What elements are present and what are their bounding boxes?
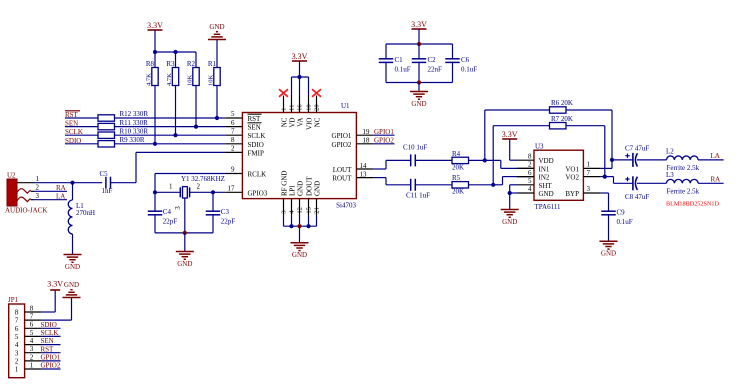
U1 top pin 16 VA <box>296 96 304 127</box>
node gnd rail b <box>297 224 301 228</box>
wire node to C7 <box>612 159 633 161</box>
node crystal pin2/C3 <box>211 190 215 194</box>
wire C11 to R5 <box>415 184 452 186</box>
svg-text:IN2: IN2 <box>539 174 550 182</box>
node rail/R8 <box>153 50 157 54</box>
net label LA <box>711 152 720 160</box>
svg-text:RCLK: RCLK <box>248 171 267 179</box>
svg-text:1: 1 <box>36 175 40 183</box>
resistor R1 10K <box>208 40 221 87</box>
resistor R4 20K <box>452 150 469 172</box>
node gnd rail c <box>306 224 310 228</box>
svg-text:17: 17 <box>228 185 236 193</box>
U1 pin 5 RST <box>231 110 262 123</box>
svg-text:C10 1uF: C10 1uF <box>403 143 427 151</box>
capacitor C10 1uF <box>403 143 427 166</box>
svg-text:2: 2 <box>15 358 19 366</box>
node VO1/R6 <box>610 158 614 162</box>
svg-text:8: 8 <box>30 304 34 312</box>
capacitor C2 22nF <box>412 44 442 83</box>
svg-text:10K: 10K <box>208 75 215 87</box>
ground (JP1) <box>63 281 81 298</box>
svg-text:TPA6111: TPA6111 <box>535 203 562 211</box>
JP1 pin 1 <box>15 361 42 373</box>
svg-text:R10 330R: R10 330R <box>120 127 149 135</box>
wire JP1 pin7 to GND <box>42 298 72 321</box>
resistor R8 4.7K <box>146 52 159 86</box>
wire C9 to ground <box>608 215 610 242</box>
no-connect X on pin 1 <box>279 89 288 97</box>
svg-text:1: 1 <box>15 366 19 374</box>
svg-text:GND: GND <box>601 250 616 258</box>
svg-text:BYP: BYP <box>565 190 579 198</box>
power 3.3V (U3 supply) <box>502 130 518 160</box>
svg-text:C1: C1 <box>395 56 404 64</box>
wire L3 to RA <box>698 182 724 184</box>
wire GPIO1 stub <box>373 128 394 136</box>
resistor R5 20K <box>452 174 469 196</box>
svg-text:5: 5 <box>30 329 34 337</box>
wire jack pin3 LA <box>34 193 67 201</box>
capacitor C11 1uF <box>406 179 430 200</box>
net label RST <box>65 111 80 119</box>
svg-text:GPIO1: GPIO1 <box>41 354 61 362</box>
ground (U3) <box>501 210 519 226</box>
capacitor C9 0.1uF <box>601 208 633 226</box>
svg-text:GND: GND <box>209 23 224 31</box>
U3 pin 2 IN1 <box>517 161 550 174</box>
svg-text:6: 6 <box>528 169 532 177</box>
capacitor C5 1nF <box>100 170 113 195</box>
node crystal gnd <box>183 231 187 235</box>
svg-text:C8 47uF: C8 47uF <box>625 193 649 201</box>
svg-text:VA: VA <box>296 118 304 127</box>
svg-text:2: 2 <box>528 161 532 169</box>
svg-text:4.7K: 4.7K <box>166 73 173 86</box>
wire JP1 GPIO2 <box>41 362 61 370</box>
svg-text:GND: GND <box>411 100 426 108</box>
svg-text:GND: GND <box>292 251 307 259</box>
svg-text:0.1uF: 0.1uF <box>461 65 477 73</box>
svg-text:SHT: SHT <box>539 182 553 190</box>
capacitor C4 22pF <box>148 192 178 233</box>
node R2/SEN junction <box>194 125 198 129</box>
svg-text:SDIO: SDIO <box>41 321 57 329</box>
connector JP1 body <box>8 296 25 378</box>
svg-text:VO2: VO2 <box>565 174 579 182</box>
wire node to IN2 <box>493 177 534 185</box>
svg-text:2: 2 <box>197 183 201 191</box>
resistor R6 20K <box>550 99 573 113</box>
ground (crystal) <box>176 252 194 268</box>
power 3.3V (pull-up rail) <box>147 21 163 52</box>
svg-text:10K: 10K <box>187 75 194 87</box>
svg-text:FMIP: FMIP <box>248 149 264 157</box>
U1 pin 17 GPIO3 <box>228 185 268 198</box>
svg-text:2: 2 <box>36 184 40 192</box>
svg-text:3.3V: 3.3V <box>502 130 518 139</box>
svg-text:SDIO: SDIO <box>248 141 264 149</box>
svg-text:R9 330R: R9 330R <box>120 136 145 144</box>
svg-text:VDD: VDD <box>539 157 554 165</box>
svg-text:4: 4 <box>528 185 532 193</box>
svg-text:R6 20K: R6 20K <box>551 99 573 107</box>
svg-text:RST: RST <box>248 115 262 123</box>
wire step to C8 <box>614 177 633 184</box>
svg-text:GND: GND <box>65 263 80 271</box>
wire JP1 SEN <box>41 337 61 345</box>
svg-text:GND: GND <box>539 190 554 198</box>
node R1/RST junction <box>215 116 219 120</box>
svg-text:C5: C5 <box>100 170 109 178</box>
node caps/gnd <box>417 80 421 84</box>
U3 pin 1 VO1 <box>565 161 600 174</box>
svg-text:22pF: 22pF <box>163 217 178 225</box>
U1 pin 18 GPIO2 <box>332 137 374 149</box>
svg-text:6: 6 <box>231 119 235 127</box>
svg-text:16: 16 <box>297 104 304 111</box>
svg-text:SEN: SEN <box>248 124 261 132</box>
svg-text:1nF: 1nF <box>102 187 113 195</box>
wire GPIO2 stub <box>373 137 394 145</box>
ground (decoupling) <box>410 92 428 108</box>
wire C5 to corner <box>111 182 136 184</box>
connector U2 AUDIO-JACK <box>5 171 47 214</box>
svg-text:12: 12 <box>296 207 303 214</box>
svg-text:NC: NC <box>313 117 321 127</box>
inductor L2 Ferrite 2.5k <box>666 148 700 173</box>
svg-text:LA: LA <box>56 193 65 201</box>
wire jack pin2 RA <box>34 184 67 192</box>
svg-text:R8: R8 <box>146 60 155 68</box>
JP1 pin 2 <box>15 353 42 365</box>
U1 pin 2 FMIP <box>231 145 264 158</box>
svg-text:5: 5 <box>15 333 19 341</box>
wire R8 to SDIO line <box>154 86 156 144</box>
svg-text:U3: U3 <box>535 142 544 150</box>
power 3.3V (JP1) <box>47 280 63 290</box>
svg-text:LA: LA <box>711 152 720 160</box>
wire C8 to L3 <box>637 182 667 184</box>
svg-text:U2: U2 <box>7 171 16 179</box>
ground (L1) <box>64 255 82 271</box>
wire crystal pin2 <box>190 183 243 193</box>
wire SCLK to R10 <box>65 134 98 136</box>
svg-text:270nH: 270nH <box>76 209 95 217</box>
U2 pin 3 contact <box>17 192 40 202</box>
capacitor C8 47uF <box>625 176 649 201</box>
capacitor C6 0.1uF <box>445 44 477 83</box>
wire to ground (crystal) <box>184 233 186 252</box>
svg-text:4: 4 <box>30 337 34 345</box>
wire R10 to U1 <box>115 134 243 136</box>
resistor R12 330R <box>98 110 148 121</box>
svg-text:6: 6 <box>15 325 19 333</box>
svg-text:DOUT: DOUT <box>305 176 313 196</box>
U1 pin 6 SEN <box>231 119 262 132</box>
wire R6 right <box>566 110 612 160</box>
no-connect X on pin 20 <box>312 89 321 97</box>
net label SEN <box>65 120 78 128</box>
svg-text:GPIO3: GPIO3 <box>248 189 268 197</box>
svg-text:RST: RST <box>41 345 55 353</box>
U1 pin 9 RCLK <box>231 166 266 179</box>
U3 pin 7 VO2 <box>565 169 600 182</box>
svg-text:19: 19 <box>363 128 371 136</box>
wire decoupling bottom rail <box>386 82 453 84</box>
svg-text:BLM18BD252SN1D: BLM18BD252SN1D <box>666 200 719 207</box>
wire JP1 SDIO <box>41 321 61 329</box>
wire crystal ground rail <box>155 232 213 234</box>
svg-text:3.3V: 3.3V <box>411 20 427 29</box>
resistor R10 330R <box>98 127 148 138</box>
svg-text:GND: GND <box>64 281 79 289</box>
svg-text:NC: NC <box>280 117 288 127</box>
svg-text:GND: GND <box>296 181 304 196</box>
svg-text:20K: 20K <box>452 163 464 171</box>
svg-text:21: 21 <box>313 207 320 214</box>
wire to ground (U3) <box>509 193 511 210</box>
svg-text:Si4703: Si4703 <box>336 202 356 210</box>
wire BYP to C9 <box>600 193 608 211</box>
svg-text:R1: R1 <box>208 60 217 68</box>
svg-text:C11 1uF: C11 1uF <box>406 191 430 199</box>
svg-text:R12 330R: R12 330R <box>120 110 149 118</box>
U1 top pin 10 VIO <box>305 96 313 130</box>
U3 pin 4 GND <box>517 185 554 198</box>
svg-text:7: 7 <box>15 317 19 325</box>
U3 pin 6 IN2 <box>517 169 550 182</box>
svg-text:C3: C3 <box>221 208 230 216</box>
svg-text:GND: GND <box>502 218 517 226</box>
power 3.3V (U1 supply) <box>292 52 308 77</box>
wire C7 to L2 <box>637 159 667 161</box>
svg-text:LPI: LPI <box>288 185 296 196</box>
svg-text:1: 1 <box>169 183 173 191</box>
node 3.3V bracket <box>297 75 301 79</box>
U1 pin 19 GPIO1 <box>332 128 374 140</box>
svg-text:VO1: VO1 <box>565 165 579 173</box>
svg-text:5: 5 <box>231 110 235 118</box>
svg-text:ROUT: ROUT <box>332 175 352 183</box>
node crystal pin1 <box>153 190 157 194</box>
wire RST to R12 <box>65 117 98 119</box>
ground (above R1) <box>208 23 226 40</box>
node gnd rail a <box>289 224 293 228</box>
wire jack pin1 to C5 <box>34 182 102 184</box>
svg-text:C2: C2 <box>428 56 437 64</box>
U3 pin 8 VDD <box>517 152 554 165</box>
wire crystal pin3 down <box>184 198 186 233</box>
svg-text:22pF: 22pF <box>221 217 236 225</box>
svg-text:GPIO2: GPIO2 <box>374 137 394 145</box>
wire ROUT step <box>373 178 410 185</box>
svg-text:3: 3 <box>36 192 40 200</box>
svg-text:4.7K: 4.7K <box>146 73 153 86</box>
U3 pin 5 SHT <box>517 177 552 190</box>
svg-text:8: 8 <box>231 136 235 144</box>
wire R3 to SCLK line <box>175 86 177 136</box>
wire R7 left <box>493 126 549 185</box>
U1 bottom pin 4 LPI <box>288 185 296 226</box>
wire R2 to SEN line <box>195 86 197 127</box>
svg-text:20K: 20K <box>452 188 464 196</box>
node R3/SCLK junction <box>173 133 177 137</box>
svg-text:LOUT: LOUT <box>333 166 352 174</box>
svg-text:3.3V: 3.3V <box>47 280 63 289</box>
U1 bottom pin 21 GND <box>313 181 321 226</box>
wire JP1 GPIO1 <box>41 354 61 362</box>
wire R4 to node <box>469 159 485 161</box>
svg-text:GPIO2: GPIO2 <box>41 362 61 370</box>
svg-text:7: 7 <box>231 127 235 135</box>
wire SHT to GND pin <box>510 185 517 193</box>
node rail/R3 <box>173 50 177 54</box>
svg-text:3: 3 <box>15 349 19 357</box>
JP1 pin 4 <box>15 337 42 349</box>
svg-text:SEN: SEN <box>41 337 54 345</box>
svg-text:2: 2 <box>231 145 235 153</box>
wire R7 right <box>566 126 605 177</box>
svg-text:11: 11 <box>289 105 296 111</box>
JP1 pin 5 <box>15 329 42 341</box>
wire R9 to U1 <box>115 143 243 145</box>
capacitor C7 47uF <box>625 145 649 167</box>
svg-text:RF GND: RF GND <box>280 171 288 196</box>
svg-text:GPIO1: GPIO1 <box>374 128 394 136</box>
wire C5 up to FMIP row <box>135 152 137 182</box>
wire R6 left <box>485 110 550 160</box>
wire RCLK to U1 pin9 <box>155 173 242 175</box>
svg-text:IN1: IN1 <box>539 165 550 173</box>
U1 pin 7 SCLK <box>231 127 265 140</box>
svg-text:Y1 32.768KHZ: Y1 32.768KHZ <box>181 175 225 183</box>
wire to ground (decoupling) <box>418 83 420 92</box>
node R8/SDIO junction <box>153 142 157 146</box>
node R4/R6/IN1 <box>483 158 487 162</box>
wire crystal pin1 <box>155 183 180 193</box>
wire VO2 to C8 node <box>600 176 613 178</box>
svg-text:8: 8 <box>15 309 19 317</box>
wire LOUT step <box>373 160 410 169</box>
wire SEN to R11 <box>65 126 98 128</box>
svg-text:R2: R2 <box>187 60 196 68</box>
svg-text:3: 3 <box>280 210 287 213</box>
U1 top pin 20 NC <box>313 96 321 128</box>
capacitor C1 0.1uF <box>379 44 411 83</box>
node SHT/GND <box>508 191 512 195</box>
svg-text:3: 3 <box>587 185 591 193</box>
node R5/R7/IN2 <box>491 183 495 187</box>
svg-text:3: 3 <box>174 206 182 210</box>
node VO2/R7 <box>603 175 607 179</box>
svg-text:5: 5 <box>528 177 532 185</box>
wire U1 ground rail <box>284 225 317 227</box>
resistor R11 330R <box>98 119 148 130</box>
svg-text:C4: C4 <box>163 208 172 216</box>
resistor R3 4.7K <box>166 52 179 86</box>
svg-text:10: 10 <box>306 104 313 111</box>
op-amp U1 Si4703 body <box>242 102 356 210</box>
svg-text:C9: C9 <box>617 208 626 216</box>
net label SDIO <box>65 137 81 145</box>
svg-text:U1: U1 <box>341 102 350 110</box>
wire 3.3V rail to resistor tops <box>155 51 196 53</box>
svg-text:R4: R4 <box>452 150 461 158</box>
wire JP1 RST <box>41 345 61 353</box>
svg-text:C7 47uF: C7 47uF <box>625 145 649 153</box>
U3 pin 3 BYP <box>565 185 600 198</box>
svg-text:15: 15 <box>305 207 312 214</box>
wire rail to ground (U1) <box>299 226 301 243</box>
JP1 pin 7 <box>15 313 42 325</box>
svg-text:L2: L2 <box>666 148 674 156</box>
inductor L1 270nH <box>68 183 95 234</box>
svg-text:SCLK: SCLK <box>248 132 266 140</box>
svg-text:GND: GND <box>177 260 192 268</box>
resistor R9 330R <box>98 136 145 147</box>
svg-text:2: 2 <box>30 353 34 361</box>
wire L1 to ground <box>72 234 74 255</box>
node jack/L1 <box>70 181 74 185</box>
ferrite part number <box>666 200 719 207</box>
resistor R2 10K <box>187 52 200 86</box>
svg-text:1: 1 <box>30 361 34 369</box>
power 3.3V (decoupling) <box>411 20 427 44</box>
svg-text:VIO: VIO <box>305 118 313 130</box>
wire R11 to U1 <box>115 126 243 128</box>
svg-text:13: 13 <box>360 170 368 178</box>
svg-text:20: 20 <box>314 104 321 111</box>
svg-text:GPIO1: GPIO1 <box>332 132 352 140</box>
svg-text:GND: GND <box>313 181 321 196</box>
svg-text:R3: R3 <box>166 60 175 68</box>
svg-text:1: 1 <box>587 161 591 169</box>
U1 top pin 11 VD <box>288 96 296 128</box>
ground (U1) <box>291 243 309 259</box>
wire R1 to RST line <box>216 86 218 119</box>
wire L2 to LA <box>698 159 724 161</box>
U1 top pin 1 NC <box>280 96 288 128</box>
svg-text:9: 9 <box>231 166 235 174</box>
wire JP1 SCLK <box>41 329 61 337</box>
U1 bottom pin 3 RF GND <box>280 171 288 227</box>
wire R5 to node <box>469 184 494 186</box>
U2 pin 1 <box>17 175 40 183</box>
op-amp U3 TPA6111 body <box>534 142 583 211</box>
wire VO1 to C7 node <box>600 160 612 169</box>
svg-text:VD: VD <box>288 118 296 128</box>
U1 bottom pin 15 DOUT <box>305 176 313 226</box>
JP1 pin 8 <box>15 304 42 316</box>
svg-text:GPIO2: GPIO2 <box>332 141 352 149</box>
wire FMIP to U1 pin2 <box>136 151 242 153</box>
U1 pin 14 LOUT <box>333 162 374 174</box>
svg-text:4: 4 <box>15 341 19 349</box>
svg-text:R11 330R: R11 330R <box>120 119 149 127</box>
U1 pin 13 ROUT <box>332 170 373 182</box>
svg-text:3.3V: 3.3V <box>292 52 308 61</box>
svg-text:8: 8 <box>528 152 532 160</box>
svg-text:SCLK: SCLK <box>41 329 59 337</box>
wire node to IN1 <box>485 160 534 168</box>
svg-text:Ferrite 2.5k: Ferrite 2.5k <box>667 188 700 196</box>
crystal Y1 32.768KHZ <box>174 175 225 210</box>
svg-text:RA: RA <box>711 176 721 184</box>
svg-text:3: 3 <box>30 345 34 353</box>
svg-text:7: 7 <box>30 313 34 321</box>
net label RA <box>711 176 721 184</box>
